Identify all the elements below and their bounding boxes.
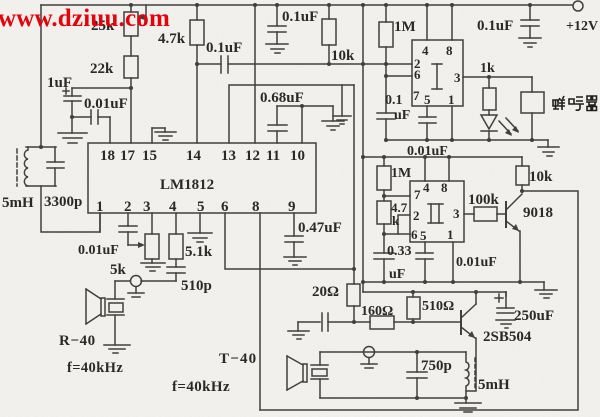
wire pin2 line left part [197,63,221,65]
wire bottom rail (U2 circuit) [363,281,544,283]
wire wiper arrow [128,242,145,248]
op-amp U1 555 box [412,40,463,106]
ground 0.68 net [322,106,344,130]
node 4.7k-pin6 [382,232,386,236]
capacitor 0.33uF [374,253,394,282]
node rail-tank [39,145,43,149]
capacitor 0.01uF under U2 pin5 [416,242,433,282]
node pin6line [384,74,388,78]
node 510R bottom [411,320,415,324]
wire tank bottom [26,185,56,187]
capacitor 0.1uF (series) [221,56,228,73]
vertical A +12V feed [362,5,364,292]
capacitor 250uF [495,292,515,328]
node IC2rail-1M [382,155,386,159]
wire pin6 down-right [225,213,354,269]
resistor 100k [474,207,506,221]
node 510R top [411,290,415,294]
potentiometer 25k [124,5,146,36]
coupling dashes 5mH [474,358,476,390]
wire R-40 net [115,280,130,282]
node rail-1M [384,3,388,7]
IC LM1812 box [88,143,316,213]
resistor 4.7k [190,5,204,143]
wire U2 pin1 down [452,242,454,282]
wire left drop to RX tank [40,5,42,147]
node rail-pin4 [425,3,429,7]
resistor 510R [407,292,420,322]
wire U1 pin3 out [463,76,532,78]
label buzzer (drawn strokes) [553,96,597,111]
terminal +12V [573,1,583,11]
capacitor 0.01uF (pin18) [72,110,110,143]
transducer T-40 horn [287,356,307,390]
resistor 22k [124,56,138,78]
ground 5k [141,263,165,271]
resistor 160R [370,316,461,329]
node rail-A [361,3,365,7]
capacitor 0.47uF (pin9) [285,213,303,257]
node buzzer-rail [530,138,534,142]
node rail-10k [327,3,331,7]
node pin3-1k [487,75,491,79]
capacitor 0.68uF (pin11) [268,106,287,143]
ground pin15 [152,128,176,143]
U1 internal mark [432,64,442,89]
wire to 1uF [72,87,131,89]
ground stub on pin13 net [333,85,351,124]
resistor 10k (Q1 collector) [516,157,529,191]
wire collector to right border [260,191,578,410]
U2 internal mark [428,204,443,223]
ground U1 rail [538,140,559,156]
capacitor C 1uF polarized [63,88,81,133]
wire pin7 IC2 [384,195,410,197]
wire T-40 loop bottom [320,397,466,399]
wire pin1 stub [99,213,101,232]
node 1M-pin2line [384,62,388,66]
resistor 1M (IC2) [377,157,391,201]
node 750p bottom [415,396,419,400]
wire U1 pin8 [451,5,453,40]
node 1M-pin7 [382,194,386,198]
wire pin6 IC2 [384,233,410,235]
wire tank to pin1 [41,186,100,232]
transducer R-40 horn [86,289,105,324]
ground 5mH [455,398,481,412]
node rail-4.7k [195,3,199,7]
LED arrows [499,118,519,136]
buzzer HA1 [521,77,544,140]
op-amp U2 555 box [410,181,464,242]
node pin6net-B [352,267,356,271]
node pin10 net [300,104,304,108]
node A-IC2rail [361,155,365,159]
wire 25k to 22k [130,36,132,56]
wire A to output stage [363,291,506,293]
node rail-pin8 [450,3,454,7]
wire 0.68 net [277,105,333,107]
capacitor coupling [298,313,370,331]
wire U1 pin1 down [451,106,453,140]
wire U2 pin3 out [464,213,474,215]
node 0.1uF-rail [384,138,388,142]
wire IC2 top rail [363,156,522,158]
node pin5cap-rail [425,138,429,142]
capacitor 0.01uF (pin2) [119,213,137,245]
transducer coupling dashed line [16,149,18,186]
wire U1 pin4 [426,5,428,40]
node 1uF/0.01uF [70,115,74,119]
resistor 20R [347,284,360,322]
node 20R-base line [352,320,356,324]
resistor 1M [379,5,393,64]
ground R-40 [104,345,130,353]
node A-bottomrail [361,280,365,284]
node A-pin2line [361,62,365,66]
capacitor under U1 pin5 [419,106,436,140]
node pin1-rail [450,138,454,142]
inductor L1 5mH (receiver tank) [24,147,28,186]
node 0.33-rail [382,280,386,284]
wire pin13 net up-over [229,85,354,143]
capacitor 0.1uF (under 1M) [377,64,395,140]
node 750p top [415,350,419,354]
wire top +12V rail [41,4,572,6]
node rail-U2pin8 [447,155,451,159]
node rail-0.1uF [275,3,279,7]
node 10k-pin2line [327,62,331,66]
ground bottom rail [535,282,557,298]
resistor 1k [483,77,496,110]
ground test point [128,287,144,297]
wire pin10 [301,106,303,143]
wire pin12 drop [254,5,256,143]
node coil bottom [464,396,468,400]
wire U2 pin4 [424,157,426,181]
transducer R-40 element [107,281,124,345]
LED D1 [481,110,497,140]
wire T-40 loop top [320,351,466,353]
test point circle [131,276,142,287]
ground 0.47uF [284,257,306,265]
wire pin8 down [259,213,261,410]
wire U2 pin8 [448,157,450,181]
node U2pin1-rail [451,280,455,284]
capacitor 0.1uF with ground (mid top) [266,5,288,53]
wire pin6 line [386,75,412,77]
ground under 1uF [58,133,87,143]
inductor 5mH (output) [466,352,469,398]
node 22k/1uF [129,86,133,90]
test point circle T-40 [361,347,377,369]
node LED-rail [487,138,491,142]
capacitor 0.1uF (top right) [519,5,541,47]
wire U1 bottom rail [386,139,548,141]
node Q2 collector [474,290,478,294]
wire 22k to pin17 [130,78,132,143]
ground left of coupling cap [288,322,309,339]
capacitor 3300p [47,147,64,186]
potentiometer 5k [145,213,159,263]
node 4.7k-pin2line [195,62,199,66]
node rail-U2pin4 [423,155,427,159]
node rail-25k [129,3,133,7]
node U2pin5cap-rail [423,280,427,284]
node collector [520,189,524,193]
resistor 5.1k [169,213,183,267]
node rail-pin12 [253,3,257,7]
capacitor 750p [407,352,427,398]
wire circle to 510p [141,280,176,282]
ground pin5 [188,213,212,242]
wire pin13 net down (vertical B) [353,85,355,284]
capacitor 510p [167,267,185,281]
wire pin2 IC2 [398,215,410,234]
resistor 4.7k (IC2) [377,201,391,253]
node Q1 emitter-rail [518,280,522,284]
wire pin2 line right part [228,63,412,65]
node rail-0.1uF right [528,3,532,7]
transistor Q2 2SB504 [461,292,476,391]
transistor Q1 9018 [506,194,522,282]
wire tank top [26,146,56,148]
transducer T-40 element [311,352,328,398]
resistor 10k [322,5,336,64]
